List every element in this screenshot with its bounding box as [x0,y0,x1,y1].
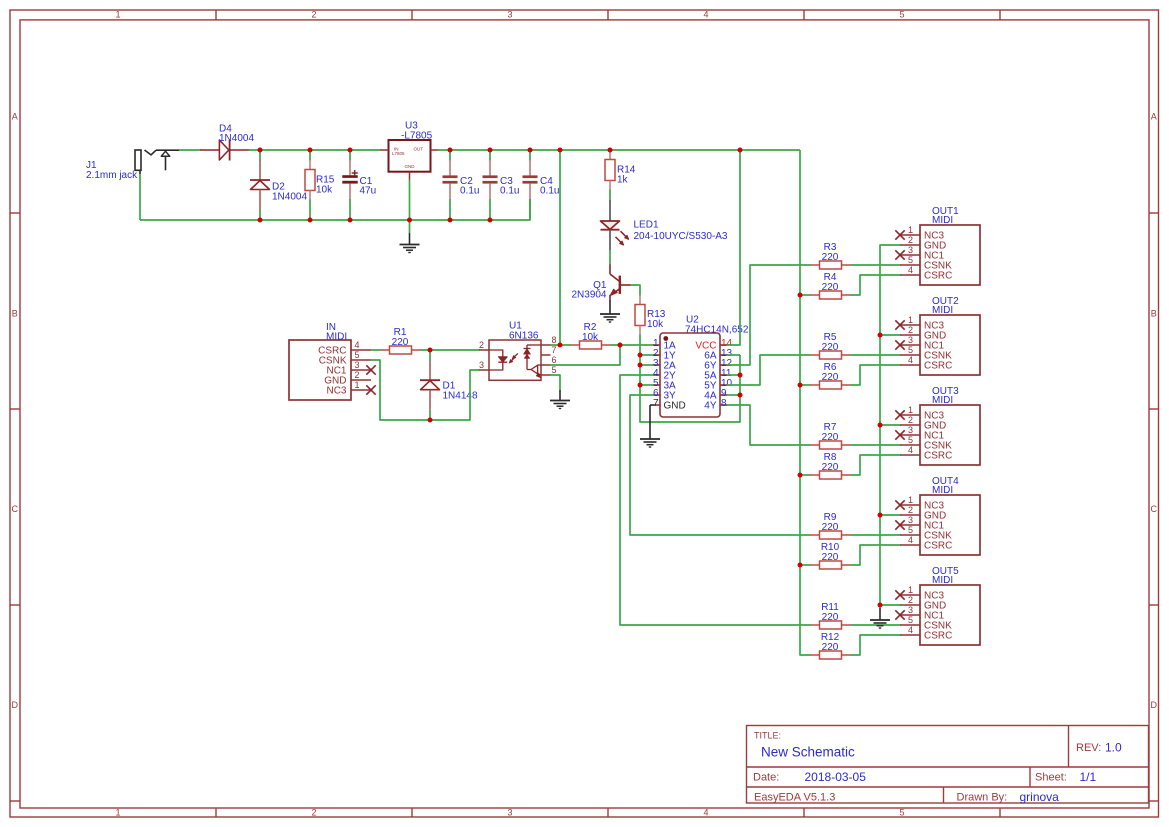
resistor R7 220 [810,444,820,446]
svg-text:1: 1 [115,808,120,818]
diode D1 [429,361,431,381]
svg-text:8: 8 [552,335,557,345]
svg-text:1: 1 [355,380,360,390]
junction 0V at C1 [348,218,353,223]
svg-text:3: 3 [507,10,512,20]
U2 pin1 marker dot [663,336,668,341]
svg-text:C: C [1150,504,1157,514]
junction ground bus at OUT4 GND [878,513,883,518]
svg-text:220: 220 [822,372,839,383]
wire R5 to OUT2 CSNK [851,354,901,356]
resistor R12 220 [810,654,820,656]
wire C4 bottom [529,199,531,220]
svg-text:5: 5 [908,525,913,535]
svg-text:5: 5 [355,350,360,360]
svg-text:Sheet:: Sheet: [1035,772,1067,784]
junction ground bus at OUT2 GND [878,333,883,338]
svg-text:2: 2 [908,415,913,425]
svg-text:4: 4 [908,625,913,635]
svg-text:Date:: Date: [753,772,779,784]
svg-text:3: 3 [908,425,913,435]
svg-text:OUT: OUT [414,147,424,152]
ground symbol on output ground bus [879,608,881,620]
no-connect X at OUT3 pin 3 [895,430,904,439]
svg-text:2018-03-05: 2018-03-05 [805,770,867,784]
svg-text:MIDI: MIDI [932,305,953,316]
junction 1Y bus at U2 pin3 [638,363,643,368]
wire R6 to OUT2 CSRC [851,365,901,385]
svg-text:4: 4 [908,535,913,545]
svg-text:D: D [11,700,18,710]
no-connect X at OUT4 pin 3 [895,520,904,529]
svg-text:MIDI: MIDI [326,332,347,343]
svg-text:C: C [11,504,18,514]
wire U1 pin8 to node [550,344,571,346]
svg-text:2: 2 [355,370,360,380]
junction ground bus at OUT5 GND [878,603,883,608]
wire R15 top [309,150,311,161]
svg-text:4: 4 [908,265,913,275]
wire D1 top [429,350,431,361]
svg-text:1: 1 [908,315,913,325]
wire R1 to U1 pin2 [421,349,480,351]
svg-text:7: 7 [653,398,659,409]
svg-text:220: 220 [822,612,839,623]
svg-text:2: 2 [908,595,913,605]
svg-text:220: 220 [822,282,839,293]
frame row ticks left [10,212,20,214]
wire IN CSRC to R1 [371,349,381,351]
resistor R2 [570,344,580,346]
svg-text:2: 2 [908,325,913,335]
capacitor C2 0.1u [449,160,451,176]
U1 light arrows [512,353,517,358]
wire opto output node down to U1 pin6 [550,345,620,365]
svg-text:220: 220 [822,342,839,353]
resistor R9 220 [810,534,820,536]
svg-text:REV:: REV: [1076,742,1101,754]
wire D4 cathode to U3 IN (+9V rail) [249,149,381,151]
resistor R1 [380,349,390,351]
wire C1 bottom [349,199,351,220]
wire C3 bottom [489,199,491,220]
wire +5V bus down right side [800,150,811,655]
junction +5V at U2 VCC riser [738,148,743,153]
svg-text:1N4004: 1N4004 [272,192,307,203]
no-connect X at OUT5 pin 3 [895,610,904,619]
svg-text:B: B [12,309,18,319]
no-connect X at OUT1 pin 1 [895,230,904,239]
U1 internal LED [489,350,507,370]
no-connect X at IN pin 1 [366,385,375,394]
wire R7 to OUT3 CSNK [851,444,901,446]
svg-text:5: 5 [899,10,904,20]
connector OUT5 MIDI [900,585,980,645]
wire OUT3 GND stub [880,424,901,426]
wire OUT1 GND to ground bus [880,245,901,608]
wire U2 pin4 2Y riser to R11 [620,375,811,625]
wire J1 sleeve to bottom rail [139,174,141,220]
wire J1 tip to D4 [179,149,201,151]
wire +5V rail from U3 OUT [438,149,800,151]
junction +5V at R14 [608,148,613,153]
svg-text:1: 1 [908,225,913,235]
ground symbol at U2 pin7 [640,438,660,440]
svg-text:220: 220 [822,522,839,533]
svg-text:3: 3 [479,360,484,370]
svg-text:6: 6 [552,355,557,365]
wire Q1 base to R13 [631,285,641,296]
svg-text:2: 2 [311,10,316,20]
ground symbol at Q1 emitter [609,300,611,314]
wire U2 pin2 1Y stub to bus [640,354,654,356]
junction 0V at U3 GND [407,218,412,223]
wire U2 pin10 5Y riser to R5 [727,355,811,385]
svg-text:TITLE:: TITLE: [754,731,781,741]
junction node R1/D1 [428,348,433,353]
wire U2 pin12 6Y riser to R3 [727,265,811,365]
junction node D1/CSNK return [428,418,433,423]
svg-text:220: 220 [822,462,839,473]
junction +5V bus at R8 [798,473,803,478]
svg-text:A: A [12,112,18,122]
wire D1 anode down [429,410,431,420]
resistor R10 220 [810,564,820,566]
wire +5V bus to R6 [800,384,811,386]
svg-text:4: 4 [908,445,913,455]
resistor R4 220 [810,294,820,296]
no-connect X at OUT5 pin 1 [895,590,904,599]
title block column dividers [1068,726,1070,768]
wire +5V bus to R10 [800,564,811,566]
capacitor C1 47u polarized [342,160,358,199]
wire D2 anode to 0V rail [259,209,261,220]
diode D2 [259,161,261,181]
wire C2 bottom [449,199,451,220]
wire U2 pin13 6A to input bus [727,354,740,356]
wire R15 bottom [309,200,311,221]
svg-text:3: 3 [908,605,913,615]
junction 1Y bus at U2 pin2 [638,353,643,358]
wire U2 pin8 4Y riser to R7 [727,405,811,445]
wire R4 to OUT1 CSRC [851,275,901,295]
svg-text:1: 1 [115,10,120,20]
wire +5V bus to R8 [800,474,811,476]
svg-text:1N4148: 1N4148 [443,391,478,402]
svg-text:2: 2 [479,340,484,350]
svg-text:MIDI: MIDI [932,485,953,496]
connector OUT3 MIDI [900,405,980,465]
no-connect X at OUT1 pin 3 [895,250,904,259]
svg-text:3: 3 [507,808,512,818]
no-connect X at OUT4 pin 1 [895,500,904,509]
resistor R15 [309,160,311,170]
svg-text:CSRC: CSRC [924,540,952,551]
svg-text:CSRC: CSRC [924,450,952,461]
resistor R6 220 [810,384,820,386]
svg-text:0.1u: 0.1u [500,186,519,197]
ground symbol below U3 [409,233,411,245]
LED LED1 [601,200,620,250]
wire U1 pin5 to ground [550,375,560,391]
svg-text:MIDI: MIDI [932,395,953,406]
junction 1Y bus at U2 pin5 [638,383,643,388]
capacitor C3 0.1u [489,160,491,176]
junction +5V at C2 [448,148,453,153]
svg-text:1k: 1k [617,175,629,186]
svg-text:47u: 47u [360,186,377,197]
svg-text:5: 5 [908,255,913,265]
LED1 emission arrows [621,231,629,239]
connector OUT4 MIDI [900,495,980,555]
frame column ticks bottom [215,808,217,817]
svg-text:220: 220 [822,252,839,263]
junction +5V bus at R10 [798,563,803,568]
regulator U3 L7805 [380,140,439,180]
wire 0V bottom rail [140,199,530,220]
junction 0V at C3 [488,218,493,223]
svg-text:3: 3 [908,515,913,525]
svg-text:10k: 10k [647,319,664,330]
svg-text:CSRC: CSRC [924,360,952,371]
junction +9V at D2 [258,148,263,153]
svg-text:4Y: 4Y [704,401,717,412]
svg-text:7: 7 [552,345,557,355]
svg-text:204-10UYC/S530-A3: 204-10UYC/S530-A3 [634,231,728,242]
junction 0V at R15 [308,218,313,223]
svg-text:MIDI: MIDI [932,575,953,586]
wire OUT2 GND stub [880,334,901,336]
svg-text:A: A [1151,112,1157,122]
no-connect X at OUT3 pin 1 [895,410,904,419]
junction ground bus at OUT3 GND [878,423,883,428]
svg-text:L7805: L7805 [392,151,405,156]
wire U2 pin9 4A to input bus [727,394,740,396]
wire R11 to OUT5 CSNK [851,624,901,626]
frame column ticks top [215,10,217,20]
connector OUT1 MIDI [900,225,980,285]
wire R9 to OUT4 CSNK [851,534,901,536]
wire U2 pin14 VCC riser to +5V rail [727,150,740,345]
resistor R8 220 [810,474,820,476]
resistor R5 220 [810,354,820,356]
svg-text:grinova: grinova [1020,790,1060,804]
junction +5V at C3 [488,148,493,153]
wire IN CSNK loop to U1 pin3 [371,360,480,420]
wire U2 pin5 3A stub to bus [640,384,654,386]
svg-text:0.1u: 0.1u [540,186,559,197]
wire LED1 to Q1 collector [609,250,611,265]
wire OUT4 GND stub [880,514,901,516]
svg-text:NC3: NC3 [326,385,346,396]
wire +5V riser to U1 pin8 [559,150,561,345]
connector IN MIDI [289,340,371,400]
resistor R13 [639,295,641,305]
connector J1 2.1mm jack symbol [135,150,179,174]
IC U2 74HC14N,652 [653,333,727,417]
junction R2 / opto output node [618,343,623,348]
svg-text:5: 5 [908,615,913,625]
svg-text:220: 220 [392,337,409,348]
svg-text:Drawn By:: Drawn By: [957,792,1008,804]
svg-text:1/1: 1/1 [1080,770,1097,784]
wire R2 to U2 pin1 [611,344,654,346]
svg-text:EasyEDA V5.1.3: EasyEDA V5.1.3 [754,792,835,804]
wire C4 top [529,150,531,161]
junction +5V bus at R4 [798,293,803,298]
resistor R11 220 [810,624,820,626]
svg-text:CSRC: CSRC [924,270,952,281]
svg-text:GND: GND [664,401,686,412]
capacitor C4 0.1u [529,160,531,176]
ground symbol at U1 pin5 [559,390,561,401]
svg-text:B: B [1151,309,1157,319]
junction 0V at D2 [258,218,263,223]
svg-text:4: 4 [908,355,913,365]
junction 0V at C2 [448,218,453,223]
svg-text:0.1u: 0.1u [460,186,479,197]
junction +5V bus at R6 [798,383,803,388]
svg-text:220: 220 [822,432,839,443]
wire U2 pin3 2A stub to bus [640,364,654,366]
svg-text:5: 5 [908,435,913,445]
junction +5V at U1 riser [558,148,563,153]
junction input bus at U2 pin9 [738,393,743,398]
wire R13 to 1Y bus [640,335,740,423]
no-connect X at OUT2 pin 1 [895,320,904,329]
wire R12 to OUT5 CSRC [851,635,901,655]
svg-text:4: 4 [703,808,708,818]
svg-text:220: 220 [822,552,839,563]
svg-text:LED1: LED1 [634,220,659,231]
transistor Q1 2N3904 [610,265,631,301]
svg-text:1: 1 [908,495,913,505]
wire C2 top [449,150,451,161]
resistor R14 [609,150,611,160]
frame row ticks right [1149,212,1159,214]
svg-text:5: 5 [908,345,913,355]
svg-text:New Schematic: New Schematic [761,745,855,760]
svg-text:10k: 10k [316,185,333,196]
wire D2 branch top [259,150,261,161]
wire R14 to LED1 [609,190,611,201]
svg-text:1N4004: 1N4004 [219,133,254,144]
svg-text:2.1mm jack: 2.1mm jack [86,170,138,181]
svg-text:3: 3 [908,335,913,345]
wire +5V bus to R4 [800,294,811,296]
svg-text:3: 3 [355,360,360,370]
svg-text:220: 220 [822,642,839,653]
svg-text:8: 8 [721,398,727,409]
svg-text:-L7805: -L7805 [401,131,433,142]
junction input bus at U2 pin11 [738,373,743,378]
wire R8 to OUT3 CSRC [851,455,901,475]
U1 internal photodiode and transistor [524,345,542,377]
wire C3 top [489,150,491,161]
wire OUT5 GND stub [880,604,901,606]
svg-text:6N136: 6N136 [509,331,539,342]
svg-text:2: 2 [908,235,913,245]
svg-text:4: 4 [355,340,360,350]
connector OUT2 MIDI [900,315,980,375]
no-connect X at OUT2 pin 3 [895,340,904,349]
optocoupler U1 6N136 [479,340,551,380]
wire U2 pin6 3Y riser to R9 [630,395,811,535]
junction +9V at R15 [308,148,313,153]
svg-text:5: 5 [552,365,557,375]
svg-text:2N3904: 2N3904 [571,290,606,301]
diode D4 [200,140,249,161]
svg-text:5: 5 [899,808,904,818]
title block row dividers [747,766,1149,768]
svg-text:1: 1 [908,585,913,595]
junction +5V at C4 [528,148,533,153]
svg-text:GND: GND [405,164,416,169]
wire U3 GND pin down to 0V rail [409,180,411,234]
svg-text:1: 1 [908,405,913,415]
svg-text:2: 2 [908,505,913,515]
wire U2 pin11 5A to input bus [727,374,740,376]
svg-text:CSRC: CSRC [924,630,952,641]
svg-text:10k: 10k [582,332,599,343]
svg-text:3: 3 [908,245,913,255]
junction +9V at C1 [348,148,353,153]
wire R3 to OUT1 CSNK [851,264,901,266]
svg-text:4: 4 [703,10,708,20]
svg-text:D: D [1150,700,1157,710]
wire C1 top [349,150,351,161]
junction U1 pin8 / R2 / +5V [558,343,563,348]
no-connect X at IN pin 3 [366,365,375,374]
wire U2 pin7 GND to ground [650,404,654,406]
title block outline [747,726,1149,804]
wire R10 to OUT4 CSRC [851,545,901,565]
svg-text:MIDI: MIDI [932,215,953,226]
svg-text:2: 2 [311,808,316,818]
svg-text:1.0: 1.0 [1105,741,1122,755]
resistor R3 220 [810,264,820,266]
